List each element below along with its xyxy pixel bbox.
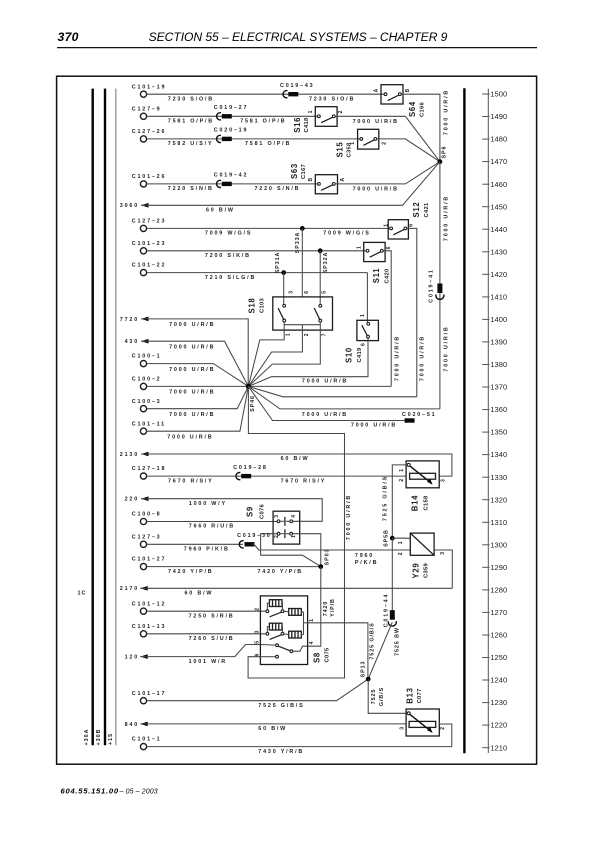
schematic frame: [57, 76, 537, 764]
svg-text:1280: 1280: [490, 586, 507, 595]
connector C019-41: [428, 268, 443, 302]
svg-text:3: 3: [274, 515, 280, 518]
label 7670 R/S/Y: [168, 478, 214, 484]
label C418: [304, 117, 310, 132]
svg-text:7581 O/P/B: 7581 O/P/B: [245, 141, 291, 147]
wire SP33A to S18 pin 6: [301, 228, 303, 297]
connector C019-42: [214, 173, 248, 188]
label 7960 P/K/B: [184, 547, 230, 553]
label S64: [408, 101, 417, 117]
svg-text:1470: 1470: [490, 157, 507, 166]
label 60 B/W (2170): [185, 591, 214, 597]
svg-text:C076: C076: [259, 504, 265, 519]
wire 7420 Y/P/B: [147, 566, 321, 568]
svg-text:C167: C167: [301, 164, 307, 179]
label 7525 G/B/S: [258, 703, 304, 709]
terminal C127-23: [132, 219, 166, 232]
svg-text:6: 6: [386, 246, 392, 249]
svg-text:SP6: SP6: [441, 146, 447, 159]
net 2170: [120, 586, 148, 592]
svg-text:+30B: +30B: [96, 728, 102, 745]
net 840: [125, 722, 148, 728]
label 7525 G/B/S (S8 drop): [370, 622, 376, 659]
svg-text:S64: S64: [408, 101, 417, 117]
pin 2 of B13: [440, 727, 446, 730]
svg-text:60 B/W: 60 B/W: [206, 208, 235, 214]
wire SP46 to SP6 riser: [248, 386, 440, 409]
connector C019-44: [383, 593, 396, 627]
pin 2 of S18: [304, 333, 310, 336]
label 7000 U/R/B (after S16): [353, 119, 399, 125]
switch S12: [388, 220, 408, 239]
svg-text:C419: C419: [357, 347, 363, 362]
svg-text:3060: 3060: [120, 203, 139, 209]
svg-text:7260 S/U/B: 7260 S/U/B: [189, 636, 235, 642]
label 7581 O/P/B (row 1480): [245, 141, 291, 147]
wire S9 pin1 to SP03: [293, 534, 321, 567]
svg-text:C418: C418: [304, 117, 310, 132]
svg-text:7525 BW: 7525 BW: [395, 627, 401, 656]
svg-text:C127–26: C127–26: [132, 129, 166, 135]
svg-text:7000 U/R/B: 7000 U/R/B: [169, 390, 215, 396]
svg-text:1420: 1420: [490, 270, 507, 279]
wire C101-22 down to S10: [366, 273, 368, 323]
label 60 B/W (2130): [281, 456, 310, 462]
label C166: [419, 102, 425, 117]
label 7000 U/R/B (C101-11): [167, 434, 213, 440]
svg-text:220: 220: [125, 497, 139, 503]
svg-text:7000 U/R/B: 7000 U/R/B: [444, 325, 450, 371]
svg-text:1310: 1310: [490, 518, 507, 527]
svg-text:S11: S11: [372, 268, 381, 284]
wire 60 B/W (2130): [141, 454, 452, 476]
wire 60 B/W (3060): [141, 162, 440, 206]
svg-text:B: B: [308, 178, 314, 182]
pin 7 of S18: [322, 333, 328, 336]
label 7000 U/R/B (S11 riser): [394, 335, 400, 381]
label 7525 G/B/S (below SP13): [371, 687, 385, 706]
switch S18: [273, 297, 333, 330]
svg-text:7525 G/B/S: 7525 G/B/S: [370, 622, 376, 659]
svg-text:60 B/W: 60 B/W: [258, 726, 287, 732]
svg-text:SP5B: SP5B: [384, 529, 390, 547]
svg-text:7000 U/R/B: 7000 U/R/B: [351, 423, 397, 429]
pin 1 of S8: [309, 619, 315, 622]
wire S18 pin1 to SP46: [248, 325, 284, 387]
label C359: [423, 563, 429, 578]
wire S12 pin6 to SP46 riser: [407, 228, 417, 396]
wire S9 pin2 to SP03: [261, 534, 321, 567]
svg-text:1: 1: [384, 224, 390, 227]
svg-text:C019–27: C019–27: [214, 105, 248, 111]
svg-text:2130: 2130: [120, 452, 139, 458]
svg-text:7960 P/K/B: 7960 P/K/B: [184, 547, 230, 553]
wire 1000 W/Y: [141, 499, 322, 522]
svg-text:7670 R/S/Y: 7670 R/S/Y: [168, 478, 214, 484]
svg-text:3: 3: [288, 291, 294, 294]
svg-text:2: 2: [440, 727, 446, 730]
junction SP03: [318, 549, 330, 569]
label 60 B/W (840): [258, 726, 287, 732]
svg-text:6: 6: [304, 291, 310, 294]
net 430: [125, 339, 149, 345]
label S18: [248, 298, 257, 314]
svg-text:7220 S/N/B: 7220 S/N/B: [168, 186, 214, 192]
label C421: [424, 202, 430, 217]
wire S64 to SP6: [401, 94, 440, 162]
svg-text:604.55.151.00: 604.55.151.00: [61, 786, 119, 795]
wire SP46 to connector C020-51: [248, 386, 404, 420]
svg-text:S9: S9: [246, 506, 255, 517]
label C075: [324, 647, 330, 662]
label 7009 W/G/S: [205, 231, 252, 237]
label +30B: [96, 728, 102, 745]
svg-text:1: 1: [286, 333, 292, 336]
svg-text:6: 6: [409, 224, 415, 227]
wire 7960 P/K/B: [147, 543, 243, 545]
svg-text:6: 6: [255, 653, 261, 656]
valve Y29: [410, 533, 434, 555]
svg-text:7200 S/K/B: 7200 S/K/B: [205, 253, 251, 259]
label +15: [108, 733, 114, 745]
switch S11: [364, 242, 385, 261]
wire 60 B/W (2170): [140, 587, 452, 589]
terminal C101-23: [132, 241, 166, 254]
wire 7582 U/S/Y: [147, 138, 360, 140]
junction SP13: [360, 661, 370, 682]
pin A of S63: [340, 178, 346, 182]
svg-text:2: 2: [274, 535, 280, 538]
label 7210 S/LG/B: [205, 275, 256, 281]
svg-text:4: 4: [291, 515, 297, 518]
svg-text:SP33A: SP33A: [295, 232, 301, 254]
wire 7200 S/K/B: [147, 250, 366, 252]
svg-text:1C: 1C: [78, 591, 87, 597]
svg-text:C421: C421: [424, 202, 430, 217]
svg-text:1460: 1460: [490, 180, 507, 189]
label 7000 U/R/B (S10 branch): [302, 378, 348, 384]
pin 6 of S10: [361, 343, 367, 346]
svg-text:C103: C103: [259, 298, 265, 313]
svg-text:C101–13: C101–13: [132, 624, 166, 630]
svg-text:C127–23: C127–23: [132, 219, 166, 225]
svg-text:7000 U/R/B: 7000 U/R/B: [346, 494, 352, 540]
svg-text:7000 U/R/B: 7000 U/R/B: [420, 335, 426, 381]
terminal C100-1: [132, 354, 162, 367]
svg-text:7000 U/R/B: 7000 U/R/B: [302, 412, 348, 418]
svg-text:S18: S18: [248, 298, 257, 314]
label C419: [357, 347, 363, 362]
terminal C127-26: [132, 129, 166, 142]
wire 7000 U/R/B (7720): [141, 319, 248, 387]
svg-text:1210: 1210: [490, 743, 507, 752]
bus +30A: [91, 89, 93, 746]
pin 1 of S12: [384, 224, 390, 227]
pin 4 of S9: [291, 515, 297, 518]
svg-text:C020–51: C020–51: [402, 412, 436, 418]
pin 6 of S11: [386, 246, 392, 249]
svg-text:7250 S/R/B: 7250 S/R/B: [189, 613, 235, 619]
wire 7220 S/N/B: [147, 183, 318, 185]
wire 60 B/W (840): [140, 723, 406, 725]
wire SP03 down to S8 pin4: [308, 567, 321, 647]
svg-text:2: 2: [255, 608, 261, 611]
wire 7000 U/R/B down to S8 pin6: [248, 476, 344, 678]
label 1000 W/Y: [189, 501, 227, 507]
sensor B13: [406, 709, 439, 736]
header title: [149, 30, 448, 44]
pin 1 of S15: [350, 142, 356, 145]
svg-text:1450: 1450: [490, 202, 507, 211]
terminal C127-9: [132, 106, 162, 119]
wire C019-30 to Y29 pin2: [253, 544, 411, 550]
right bus bar: [463, 88, 465, 753]
label Y29: [412, 563, 421, 579]
svg-text:S63: S63: [290, 163, 299, 179]
label 7000 U/R/B (SP6 drop upper): [444, 195, 450, 241]
terminal C101-17: [132, 691, 166, 704]
svg-text:1300: 1300: [490, 540, 507, 549]
label 7430 Y/R/B: [258, 749, 304, 755]
svg-text:C075: C075: [324, 647, 330, 662]
svg-text:7230 S/O/B: 7230 S/O/B: [309, 96, 355, 102]
connector C020-51: [402, 412, 436, 422]
svg-text:P/K/B: P/K/B: [355, 560, 378, 566]
connector C019-27: [214, 105, 248, 120]
wire 7430 Y/R/B: [147, 746, 452, 748]
switch S10: [357, 320, 379, 340]
svg-text:1270: 1270: [490, 608, 507, 617]
svg-text:C101–12: C101–12: [132, 601, 166, 607]
wire C019-44 to SP13: [368, 622, 392, 679]
wire S15 to SP6: [377, 139, 440, 162]
svg-text:7582 U/S/Y: 7582 U/S/Y: [168, 141, 214, 147]
label 1001 W/R: [189, 659, 227, 665]
junction SP5B: [384, 529, 395, 547]
label 7000 U/R/B (C100-3): [169, 412, 215, 418]
svg-text:7000 U/R/B: 7000 U/R/B: [169, 367, 215, 373]
pin 1 of S9: [291, 535, 297, 538]
pin 6 of S8: [255, 653, 261, 656]
svg-text:1001 W/R: 1001 W/R: [189, 659, 227, 665]
wire SP46 to S12 riser: [248, 386, 416, 396]
svg-text:C101–26: C101–26: [132, 174, 166, 180]
svg-text:1: 1: [360, 314, 366, 317]
terminal C101-11: [132, 421, 166, 434]
wire 7210 S/LG/B: [147, 272, 368, 274]
svg-text:+30A: +30A: [84, 728, 90, 745]
svg-text:S8: S8: [313, 652, 322, 663]
svg-text:3: 3: [255, 630, 261, 633]
terminal C101-19: [132, 84, 166, 97]
svg-text:7525 G/B/S: 7525 G/B/S: [383, 475, 389, 521]
bus +15: [115, 89, 117, 746]
pin 3 of S18: [288, 291, 294, 294]
svg-text:B13: B13: [405, 687, 414, 703]
svg-text:5: 5: [321, 291, 327, 294]
pin 3 of Y29: [440, 552, 446, 555]
label 7220 S/N/B: [168, 186, 214, 192]
label S8: [313, 652, 322, 663]
label 7525 BW: [395, 627, 401, 656]
pin 1 of S18: [286, 333, 292, 336]
svg-text:C101–11: C101–11: [132, 421, 166, 427]
terminal C127-18: [132, 466, 166, 479]
terminal C101-13: [132, 624, 166, 637]
label B14: [411, 495, 420, 511]
svg-text:S15: S15: [336, 142, 345, 158]
label 7000 U/R/B (C100-1): [169, 367, 215, 373]
terminal C101-26: [132, 174, 166, 187]
svg-text:C127–9: C127–9: [132, 106, 162, 112]
svg-text:Y29: Y29: [412, 563, 421, 579]
label 7000 U/R/B (SP46-SP6 branch): [302, 412, 348, 418]
svg-text:3: 3: [441, 479, 447, 482]
svg-text:1440: 1440: [490, 225, 507, 234]
label 7000 U/R/B (SP6 drop lower): [444, 325, 450, 371]
header rule: [57, 47, 537, 49]
connector C020-19: [214, 128, 248, 143]
label 7000 U/R/B (B14 riser): [346, 494, 352, 540]
pin 2 of B14: [399, 479, 405, 482]
svg-text:7000 U/R/B: 7000 U/R/B: [353, 119, 399, 125]
svg-text:A: A: [340, 178, 346, 182]
wire B13 pin2 drop: [439, 724, 452, 747]
wire 7581 O/P/B: [147, 115, 318, 117]
label 7000 U/R/B (430): [169, 344, 215, 350]
pin 1 of B14: [399, 469, 405, 472]
wire 7260 S/U/B: [147, 633, 266, 635]
svg-text:1230: 1230: [490, 698, 507, 707]
svg-text:7009 W/G/S: 7009 W/G/S: [323, 231, 370, 237]
wire 7000 U/R/B (C100-3): [147, 386, 249, 408]
wire Y29 pin3 to 2170 row: [434, 550, 452, 588]
label 7230 S/O/B: [168, 96, 214, 102]
svg-text:S12: S12: [412, 202, 421, 218]
terminal C127-3: [132, 534, 162, 547]
svg-text:1: 1: [291, 535, 297, 538]
svg-text:B14: B14: [411, 495, 420, 511]
wire SP46 to B14 pin2 riser: [248, 386, 344, 476]
svg-text:C420: C420: [384, 269, 390, 284]
label C167: [301, 164, 307, 179]
svg-text:7720: 7720: [120, 317, 139, 323]
svg-text:7670 R/S/Y: 7670 R/S/Y: [281, 478, 327, 484]
label 1C: [78, 591, 87, 597]
label 7525 G/B/S (B14 drop): [383, 475, 389, 521]
svg-text:7420 Y/P/B: 7420 Y/P/B: [258, 569, 303, 575]
label S16: [293, 117, 302, 133]
ruler line: [487, 89, 489, 753]
svg-text:7000 U/R/B: 7000 U/R/B: [302, 378, 348, 384]
svg-text:C019–41: C019–41: [428, 268, 434, 302]
svg-text:7420: 7420: [323, 601, 329, 617]
page number 370: [58, 30, 79, 44]
svg-text:430: 430: [125, 339, 139, 345]
svg-text:1240: 1240: [490, 676, 507, 685]
pin 4 of S8: [309, 641, 315, 644]
svg-text:7960: 7960: [355, 553, 374, 559]
svg-text:SP03: SP03: [324, 549, 330, 566]
junction SP6: [438, 146, 448, 165]
svg-text:7000 U/R/B: 7000 U/R/B: [167, 434, 213, 440]
svg-text:7000 U/R/B: 7000 U/R/B: [169, 412, 215, 418]
sensor B14: [406, 461, 439, 488]
label S9: [246, 506, 255, 517]
svg-text:C101–19: C101–19: [132, 84, 166, 90]
net 7720: [120, 317, 149, 323]
wire 7230 S/O/B: [147, 93, 384, 95]
svg-text:B: B: [405, 88, 411, 92]
svg-text:1380: 1380: [490, 360, 507, 369]
label S11: [372, 268, 381, 284]
svg-text:C101–17: C101–17: [132, 691, 166, 697]
svg-text:C101–27: C101–27: [132, 557, 166, 563]
label 7000 U/R/B (7720): [169, 322, 215, 328]
svg-text:S16: S16: [293, 117, 302, 133]
connector C019-43: [280, 83, 314, 98]
svg-text:2: 2: [338, 110, 344, 113]
svg-text:Y/P/B: Y/P/B: [330, 598, 336, 617]
footer document number: [61, 786, 158, 795]
wire SP32A to S18 pin 5: [319, 251, 321, 305]
pin B of S64: [405, 88, 411, 92]
terminal C100-3: [132, 399, 162, 412]
svg-text:C019–30: C019–30: [237, 533, 271, 539]
svg-text:7009 W/G/S: 7009 W/G/S: [205, 231, 252, 237]
svg-text:1: 1: [308, 110, 314, 113]
wire SP31A to S18 pin 3: [283, 273, 285, 305]
terminal C100-2: [132, 377, 162, 390]
label C358: [346, 142, 352, 157]
svg-text:1370: 1370: [490, 383, 507, 392]
svg-text:A: A: [374, 88, 380, 92]
label 7420 Y/P/B (S8 riser): [323, 598, 336, 617]
label C076: [259, 504, 265, 519]
svg-text:4: 4: [309, 641, 315, 644]
wire 7670 R/S/Y: [147, 475, 406, 477]
label 7200 S/K/B: [205, 253, 251, 259]
svg-text:7525: 7525: [371, 689, 377, 705]
svg-text:60 B/W: 60 B/W: [281, 456, 310, 462]
svg-text:2: 2: [304, 333, 310, 336]
pin 6 of S18: [304, 291, 310, 294]
pin 5 of S18: [321, 291, 327, 294]
wire 7525 G/B/S: [147, 679, 368, 701]
svg-text:2: 2: [398, 552, 404, 555]
svg-text:1340: 1340: [490, 450, 507, 459]
svg-text:7220 S/N/B: 7220 S/N/B: [255, 186, 301, 192]
label 7000 U/R/B (C020-51 branch): [351, 423, 397, 429]
label 7960 P/K/B (2-line): [355, 553, 378, 566]
wire B14 pin1 to SP5B: [392, 465, 407, 538]
wire S18 pin7 to SP46: [248, 325, 320, 387]
svg-text:C166: C166: [419, 102, 425, 117]
svg-text:7581 O/P/B: 7581 O/P/B: [168, 119, 214, 125]
wire 7000 U/R/B (C101-11): [147, 386, 249, 431]
svg-text:C100–2: C100–2: [132, 377, 162, 383]
svg-text:C127–18: C127–18: [132, 466, 166, 472]
net 120: [125, 654, 148, 660]
label 60 B/W (3060): [206, 208, 235, 214]
svg-text:7420 Y/P/B: 7420 Y/P/B: [168, 569, 213, 575]
svg-text:7000 U/R/B: 7000 U/R/B: [444, 89, 450, 135]
svg-text:1320: 1320: [490, 495, 507, 504]
label 7000 U/R/B (S12 riser): [420, 335, 426, 381]
label 7420 Y/P/B (2): [258, 569, 303, 575]
svg-text:7000 U/R/B: 7000 U/R/B: [353, 187, 399, 193]
svg-text:C127–3: C127–3: [132, 534, 162, 540]
